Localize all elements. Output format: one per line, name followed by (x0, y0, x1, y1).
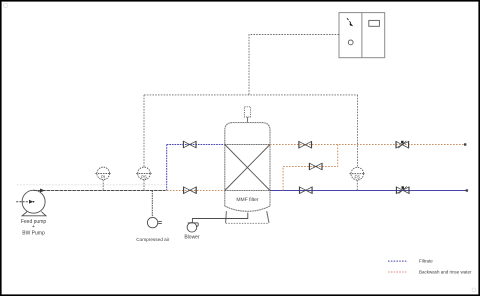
watermark circle top-left (3, 3, 7, 7)
valve V1 (183, 141, 196, 148)
svg-text:+: + (32, 224, 35, 230)
vessel diagonal 2 (225, 145, 270, 191)
instrument FS (350, 167, 366, 190)
vessel vent stem (247, 117, 249, 123)
svg-text:PS: PS (141, 174, 147, 179)
svg-text:BW Pump: BW Pump (22, 231, 45, 237)
vessel top chord (225, 144, 270, 146)
blue line end marker (466, 189, 468, 191)
panel indicator rectangle (369, 20, 380, 26)
signal drop to PS (143, 95, 145, 167)
vessel bottom chord (225, 190, 270, 192)
valve V5 (300, 187, 313, 194)
panel switch arrow (347, 18, 353, 26)
control panel U1 (339, 13, 385, 58)
vessel left leg (225, 211, 228, 223)
svg-text:Backwash and rinse water: Backwash and rinse water (419, 270, 472, 275)
svg-text:MMF filter: MMF filter (236, 197, 259, 203)
signal line panel to rail (249, 35, 339, 95)
valve V3 (299, 141, 312, 148)
legend orange line (388, 271, 406, 273)
vessel right leg (267, 211, 269, 223)
orange filtrate/backwash top line right of vessel (270, 144, 465, 146)
instrument PI (95, 167, 111, 190)
valve V7 with actuator slash (396, 186, 409, 193)
blower B1 (187, 223, 198, 233)
blower air pipe (192, 213, 247, 223)
signal drop to FS (357, 95, 359, 167)
flow arrowhead on feed line (40, 189, 45, 193)
main feed line (34, 190, 166, 192)
compressed air drop line (151, 191, 153, 218)
faint ghost line (17, 184, 166, 186)
vessel vent rectangle (244, 107, 250, 117)
compressed air symbol (147, 217, 161, 227)
vessel base line (226, 222, 269, 224)
panel lamp circle (348, 40, 353, 45)
pump center dot (33, 201, 35, 203)
watermark circle bottom-right (472, 288, 476, 292)
pump base (22, 212, 46, 216)
signal rail (144, 94, 358, 96)
instrument PS (136, 167, 152, 190)
svg-text:FS: FS (355, 175, 361, 180)
legend blue line (388, 260, 406, 262)
feed pump P1 (22, 190, 45, 213)
vessel diagonal 1 (225, 145, 270, 191)
orange bypass (283, 145, 338, 191)
valve V2 (184, 187, 197, 194)
svg-text:Filtrate: Filtrate (419, 259, 433, 264)
svg-text:Compressed air: Compressed air (136, 237, 170, 242)
vessel T1 shell (225, 123, 270, 212)
blue bottom line right of vessel (270, 190, 467, 192)
pump inlet line (16, 201, 29, 203)
valve V4 (309, 163, 322, 170)
pump inlet arrowhead (29, 200, 33, 204)
blue top feed line to vessel (167, 144, 225, 146)
orange line end marker (464, 143, 466, 145)
blue filtrate riser (166, 145, 168, 191)
svg-text:Blower: Blower (184, 234, 200, 240)
orange backwash line into vessel (167, 190, 225, 192)
valve V6 with actuator slash (396, 141, 409, 148)
svg-text:PI: PI (101, 174, 105, 179)
